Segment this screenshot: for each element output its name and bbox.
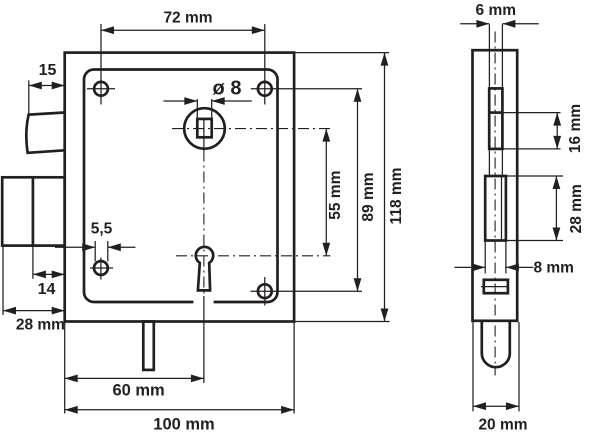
svg-text:20 mm: 20 mm [478,416,527,433]
svg-text:60 mm: 60 mm [112,381,164,399]
svg-text:8 mm: 8 mm [533,259,574,276]
svg-text:6 mm: 6 mm [476,2,517,19]
svg-text:89 mm: 89 mm [360,172,377,221]
svg-text:28 mm: 28 mm [16,317,65,334]
svg-text:ø 8: ø 8 [213,78,242,100]
svg-text:100 mm: 100 mm [153,415,214,433]
svg-text:16 mm: 16 mm [567,104,584,153]
svg-text:118 mm: 118 mm [388,168,405,225]
svg-text:28 mm: 28 mm [568,184,585,233]
svg-text:15: 15 [39,62,57,79]
svg-text:55 mm: 55 mm [327,171,344,220]
svg-text:5,5: 5,5 [91,220,113,237]
svg-text:72 mm: 72 mm [163,10,212,27]
svg-text:14: 14 [38,281,56,298]
